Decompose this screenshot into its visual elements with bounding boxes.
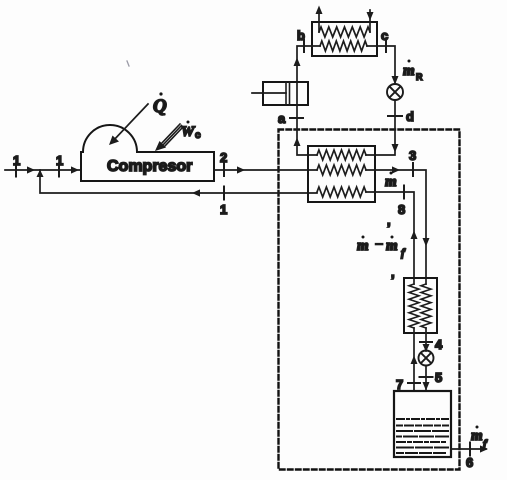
svg-text:Compresor: Compresor bbox=[107, 158, 192, 175]
arrow into compressor bbox=[71, 166, 79, 173]
arrow down into valve bbox=[423, 344, 430, 352]
node 2 tick bbox=[223, 163, 225, 176]
arrow Q into dome bbox=[112, 104, 148, 142]
svg-text:a: a bbox=[278, 111, 286, 126]
wire: valve to tank (state 5) bbox=[425, 366, 427, 392]
node d tick bbox=[388, 115, 402, 117]
svg-text:5: 5 bbox=[435, 370, 442, 385]
arrow on inlet line bbox=[27, 166, 35, 173]
node 7 tick bbox=[408, 382, 420, 384]
node 1 tick on return bbox=[223, 187, 225, 200]
arrow down on d pipe bbox=[392, 144, 399, 153]
wire: coolant in (down arrow) bbox=[369, 10, 371, 32]
separator tank bbox=[394, 391, 451, 457]
control volume dashed boundary bbox=[279, 130, 460, 470]
node 4 tick bbox=[420, 341, 432, 343]
liquid level dash-dot rows bbox=[397, 419, 448, 453]
arrow up on a pipe bbox=[294, 138, 301, 147]
coil a-d (top) bbox=[317, 150, 366, 160]
arrow up on return bbox=[411, 356, 418, 365]
svg-text:m: m bbox=[357, 238, 369, 254]
wire: c pipe to refrigerant valve bbox=[367, 46, 395, 84]
arrow out bbox=[480, 445, 488, 452]
arrow up at junction bbox=[37, 170, 44, 178]
piston rod bbox=[252, 92, 286, 94]
svg-text:c: c bbox=[195, 130, 201, 141]
svg-text:Q: Q bbox=[153, 96, 167, 117]
wire: return line (state 1 low) bbox=[40, 170, 317, 193]
svg-text:6: 6 bbox=[466, 455, 473, 470]
wire: coolant out (up arrow) bbox=[318, 10, 320, 32]
expansion valve (circle with X) bbox=[419, 351, 434, 366]
node 3 tick bbox=[412, 163, 414, 176]
middle heat exchanger box bbox=[308, 146, 375, 202]
svg-text:d: d bbox=[406, 109, 414, 124]
svg-text:m: m bbox=[385, 174, 397, 190]
top exchanger coil b-c stream bbox=[320, 41, 367, 51]
svg-text:c: c bbox=[381, 28, 388, 43]
compressor body bbox=[81, 125, 214, 181]
arrow down into tank bbox=[423, 382, 430, 391]
wire: feed down to valve (state 4) bbox=[425, 328, 427, 351]
svg-text:−: − bbox=[374, 237, 384, 253]
node 8 tick bbox=[403, 186, 405, 199]
arrow right before node 3 bbox=[392, 166, 400, 173]
svg-text:1: 1 bbox=[13, 153, 20, 168]
wire: state 3 line right and down to lower exchanger bbox=[366, 170, 426, 284]
left vertical coil (return) bbox=[409, 284, 419, 328]
wire: b pipe from cylinder to exchanger bbox=[297, 46, 320, 105]
arrow left on return line bbox=[192, 189, 200, 196]
wire: vapor return from tank (state 7) bbox=[413, 328, 415, 391]
wire: d pipe down into exchanger bbox=[366, 100, 395, 155]
svg-text:f: f bbox=[401, 247, 406, 259]
svg-text:,: , bbox=[391, 265, 395, 280]
wire: a pipe from exchanger top coil left bbox=[297, 105, 317, 155]
svg-text:f: f bbox=[483, 438, 488, 450]
node b tick bbox=[303, 40, 305, 52]
arrow on outlet line bbox=[237, 166, 245, 173]
wire: liquid product out (state 6) bbox=[451, 448, 486, 450]
piston plate bbox=[285, 82, 287, 105]
svg-text:b: b bbox=[297, 28, 305, 43]
svg-text:8: 8 bbox=[398, 202, 405, 217]
arrow up on b pipe bbox=[294, 58, 301, 67]
coil 2-3 (middle) bbox=[317, 165, 366, 175]
node 1 tick (second) bbox=[58, 164, 60, 177]
svg-text:7: 7 bbox=[396, 377, 403, 392]
svg-text:1: 1 bbox=[220, 202, 227, 217]
arrow down into valve bbox=[392, 76, 399, 85]
svg-text:,: , bbox=[387, 213, 391, 228]
svg-text:R: R bbox=[416, 72, 423, 82]
right vertical coil (feed) bbox=[421, 284, 431, 328]
node 1 tick (far left) bbox=[15, 164, 17, 177]
coil 8-1 (bottom) bbox=[317, 187, 366, 197]
svg-text:2: 2 bbox=[220, 150, 227, 165]
node 5 tick bbox=[420, 376, 433, 378]
svg-text:m: m bbox=[403, 63, 415, 79]
scan speck bbox=[127, 61, 129, 66]
expansion valve m_R (circle with X) bbox=[387, 84, 403, 100]
wire: state 8 return line up from lower exchanger bbox=[366, 192, 414, 284]
svg-text:1: 1 bbox=[56, 153, 63, 168]
svg-text:4: 4 bbox=[435, 337, 443, 352]
node a tick bbox=[290, 117, 303, 119]
arrow W_c into compressor (double shaft) bbox=[161, 124, 180, 144]
svg-text:m: m bbox=[471, 428, 483, 444]
arrow up on 8 vertical bbox=[411, 231, 418, 240]
top exchanger coil (cooling stream) bbox=[319, 27, 370, 37]
piston cylinder device bbox=[263, 82, 308, 105]
svg-text:m: m bbox=[386, 238, 398, 254]
node c tick bbox=[385, 40, 387, 52]
wire: inlet line to compressor (state 1) bbox=[5, 169, 81, 171]
arrow down on 3 vertical bbox=[423, 238, 430, 247]
node 6 tick bbox=[469, 443, 471, 456]
wire: compressor outlet (state 2) to exchanger bbox=[214, 169, 317, 171]
top heat exchanger box bbox=[312, 22, 377, 56]
lower heat exchanger box bbox=[404, 278, 437, 333]
svg-text:3: 3 bbox=[409, 148, 416, 163]
